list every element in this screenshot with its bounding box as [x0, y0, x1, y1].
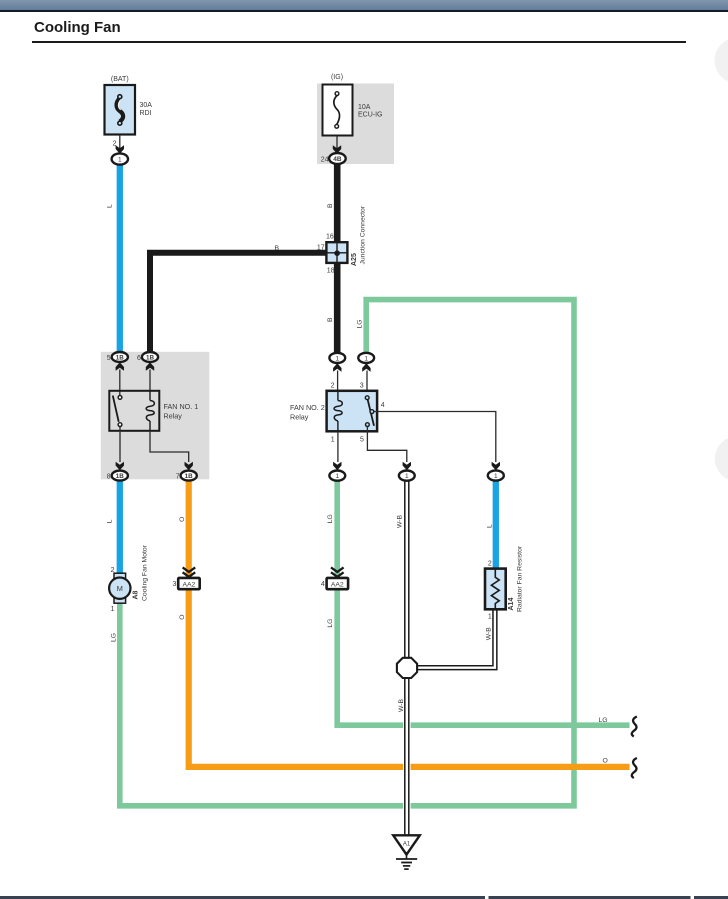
footer line right segment — [694, 896, 728, 899]
svg-text:W-B: W-B — [397, 514, 404, 528]
svg-text:1B: 1B — [116, 473, 125, 480]
scroll blob top right — [715, 38, 728, 84]
svg-text:5: 5 — [360, 437, 364, 444]
wire O : relay 1 pin 7 to connector (orange, ends with break) — [179, 481, 630, 767]
svg-text:Cooling Fan Motor: Cooling Fan Motor — [141, 544, 148, 601]
svg-text:LG: LG — [111, 633, 118, 642]
wire : relay2 switch to pin 5 — [367, 426, 406, 462]
svg-text:1B: 1B — [116, 354, 125, 361]
svg-text:L: L — [107, 519, 114, 523]
octagon junction node — [397, 658, 417, 678]
node 6 : oval 1B relay1 top-right — [137, 352, 158, 391]
svg-text:O: O — [603, 758, 608, 765]
svg-text:1: 1 — [118, 157, 122, 164]
svg-text:8: 8 — [107, 474, 111, 481]
svg-text:1: 1 — [335, 355, 339, 362]
footer line left segment — [0, 896, 485, 899]
motor A8 : Cooling Fan Motor — [109, 544, 148, 612]
svg-text:L: L — [487, 524, 494, 528]
svg-text:B: B — [327, 317, 334, 322]
relay 1 coil + switch box — [109, 391, 198, 431]
svg-text:4: 4 — [321, 581, 325, 588]
svg-text:A25: A25 — [351, 253, 358, 266]
svg-text:6: 6 — [137, 355, 141, 362]
wire : relay2 pin 4 to resistor branch — [374, 412, 496, 463]
svg-text:1: 1 — [111, 606, 115, 613]
wire B : junction A25 to relay 2 pin 2 (black) — [327, 262, 337, 353]
svg-text:O: O — [179, 614, 186, 619]
svg-text:1B: 1B — [185, 473, 194, 480]
svg-text:B: B — [275, 245, 280, 252]
svg-text:7: 7 — [176, 474, 180, 481]
svg-text:FAN NO. 2: FAN NO. 2 — [290, 403, 325, 412]
fuse 10A ECU-IG — [321, 74, 383, 164]
svg-text:(IG): (IG) — [331, 74, 343, 81]
wire LG loop : motor A8 to relay 2 pin 3 (green) — [111, 300, 574, 806]
svg-text:W-B: W-B — [485, 627, 492, 641]
connector AA2 pin 3 (on orange wire) — [172, 567, 199, 589]
node 7 : oval 1B relay1 bottom-right — [176, 462, 197, 481]
svg-text:10A: 10A — [358, 104, 371, 111]
svg-text:30A: 30A — [140, 102, 153, 109]
svg-text:1: 1 — [488, 614, 492, 621]
relay 2 coil + switch box — [290, 391, 385, 444]
svg-text:AA2: AA2 — [331, 582, 344, 589]
svg-text:FAN NO. 1: FAN NO. 1 — [164, 402, 199, 411]
wire B : fuse ECU-IG to junction A25 (black) — [327, 164, 337, 245]
wire L : relay 2 pin 4 to resistor A14 (blue) — [487, 481, 496, 570]
svg-text:B: B — [327, 203, 334, 208]
wire W-B : resistor A14 to octagon junction — [410, 609, 497, 670]
node 1 : oval relay2 pin4 branch — [488, 462, 504, 481]
svg-text:LG: LG — [327, 514, 334, 523]
svg-text:Relay: Relay — [164, 412, 183, 421]
svg-text:3: 3 — [172, 581, 176, 588]
node 1 : oval relay2 pin3 top — [358, 353, 374, 396]
break symbol on LG wire end — [632, 717, 637, 737]
svg-text:1: 1 — [364, 355, 368, 362]
node 1 : connector oval below fuse RDI — [112, 153, 128, 164]
svg-text:A14: A14 — [508, 598, 515, 611]
svg-text:W-B: W-B — [398, 698, 405, 712]
svg-text:4B: 4B — [333, 156, 342, 163]
svg-text:24: 24 — [321, 157, 329, 164]
svg-text:RDI: RDI — [140, 110, 152, 117]
svg-text:2: 2 — [331, 383, 335, 390]
svg-text:1B: 1B — [146, 354, 155, 361]
panel: ECU-IG fuse shaded block — [317, 84, 394, 165]
junction connector A25 — [317, 205, 366, 274]
svg-text:4: 4 — [381, 402, 385, 409]
wire : relay2 coil to pin 1 — [337, 431, 339, 462]
svg-text:3: 3 — [360, 383, 364, 390]
svg-text:1: 1 — [494, 473, 498, 480]
svg-text:17: 17 — [317, 245, 325, 252]
wire L : fuse RDI to relay 1 pin 5 (blue) — [107, 164, 120, 352]
connector AA2 pin 4 (on green wire) — [321, 567, 348, 589]
svg-text:16: 16 — [326, 234, 334, 241]
break symbol on O wire end — [632, 758, 637, 778]
svg-text:O: O — [179, 517, 186, 522]
svg-text:Junction Connector: Junction Connector — [359, 205, 366, 264]
ground A1 — [393, 835, 420, 869]
svg-text:L: L — [107, 204, 114, 208]
svg-text:ECU-IG: ECU-IG — [358, 112, 383, 119]
scroll blob middle right — [715, 436, 728, 481]
svg-text:LG: LG — [599, 717, 608, 724]
svg-text:18: 18 — [327, 267, 335, 274]
wire W-B : relay 2 pin 5 through octagon junction to ground A1 — [397, 481, 409, 836]
svg-text:2: 2 — [488, 561, 492, 568]
svg-text:1: 1 — [335, 473, 339, 480]
svg-text:LG: LG — [327, 619, 334, 628]
svg-text:LG: LG — [356, 319, 363, 328]
node 1 : oval relay2 pin5 bottom — [399, 462, 415, 481]
svg-text:1: 1 — [331, 437, 335, 444]
footer line middle segment — [489, 896, 691, 899]
wire : relay1 coil to pin 7 — [150, 431, 189, 462]
svg-text:A1: A1 — [403, 842, 411, 848]
node 1 : oval relay2 pin2 top — [329, 353, 345, 391]
wire B : junction A25 to relay 1 pin 6 (black, horizontal + down) — [150, 245, 328, 353]
svg-text:A8: A8 — [133, 590, 140, 599]
svg-text:Radiator Fan Resistor: Radiator Fan Resistor — [517, 545, 524, 612]
node 1 : oval relay2 pin1 bottom — [329, 462, 345, 481]
svg-text:M: M — [117, 584, 123, 593]
svg-text:AA2: AA2 — [182, 582, 195, 589]
panel: FAN NO. 1 relay shaded block — [101, 352, 210, 480]
node 4B : connector oval below fuse ECU-IG — [329, 153, 346, 164]
fuse 30A RDI — [105, 76, 153, 154]
svg-text:Relay: Relay — [290, 413, 309, 422]
svg-text:(BAT): (BAT) — [111, 76, 129, 83]
resistor A14 : Radiator Fan Resistor — [485, 545, 524, 620]
wire : relay1 switch to pin 8 — [119, 427, 121, 463]
wire LG : relay 2 pin 1 to connector (green, ends with break) — [327, 481, 630, 725]
svg-text:5: 5 — [107, 355, 111, 362]
node 5 : oval 1B relay1 top-left — [107, 352, 128, 396]
svg-text:1: 1 — [405, 473, 409, 480]
wire L : relay 1 pin 8 to motor A8 (blue) — [107, 481, 120, 578]
node 8 : oval 1B relay1 bottom-left — [107, 462, 128, 481]
